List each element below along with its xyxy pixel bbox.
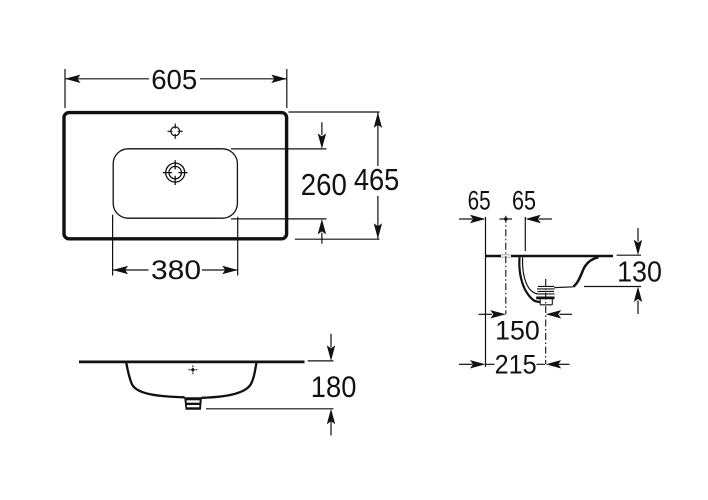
dimension 605 — [65, 69, 287, 108]
section view: drain centerline (dash-dot) — [545, 279, 547, 364]
section view: tap hole notch in rim — [501, 255, 511, 257]
section view: drain bottom spigot — [540, 299, 552, 305]
overflow hole symbol — [168, 124, 183, 139]
dimension 180 — [206, 334, 335, 436]
dimension 465 — [289, 112, 383, 239]
dimension 380 — [113, 215, 238, 276]
front view: rim line — [79, 360, 305, 363]
svg-text:65: 65 — [468, 185, 491, 215]
dimension 260 — [231, 122, 327, 244]
svg-text:130: 130 — [617, 256, 662, 288]
section view: left extension line — [485, 217, 487, 367]
dimension 150 — [479, 310, 573, 318]
dimension 65 right — [525, 215, 552, 223]
svg-text:260: 260 — [301, 168, 347, 202]
section view: tap centerline (dash-dot) — [505, 216, 507, 315]
section view: bowl right wall — [574, 257, 599, 286]
svg-text:65: 65 — [512, 185, 536, 215]
section view: rim line — [486, 255, 614, 258]
section view: bowl interior bottom — [554, 286, 573, 289]
top view: inner bowl outline — [113, 149, 237, 218]
svg-text:150: 150 — [495, 316, 540, 346]
front view: drain with threads — [184, 397, 202, 410]
dimension 215 — [459, 360, 570, 368]
faucet hole symbol — [163, 160, 188, 185]
section view: drain threads — [536, 286, 554, 298]
svg-text:465: 465 — [354, 163, 400, 197]
svg-text:180: 180 — [311, 371, 357, 404]
front view: bowl outline — [126, 363, 256, 398]
dimension 130 — [584, 228, 642, 314]
dimension 65 left — [459, 215, 512, 223]
svg-text:215: 215 — [495, 350, 537, 380]
section view: right 65 extension line — [524, 217, 526, 251]
top view: basin outer outline — [64, 113, 287, 239]
svg-text:380: 380 — [151, 255, 201, 285]
front view: drain center symbol — [189, 365, 198, 374]
section view: bowl left wall (double line) — [519, 257, 539, 302]
svg-text:605: 605 — [151, 64, 197, 95]
